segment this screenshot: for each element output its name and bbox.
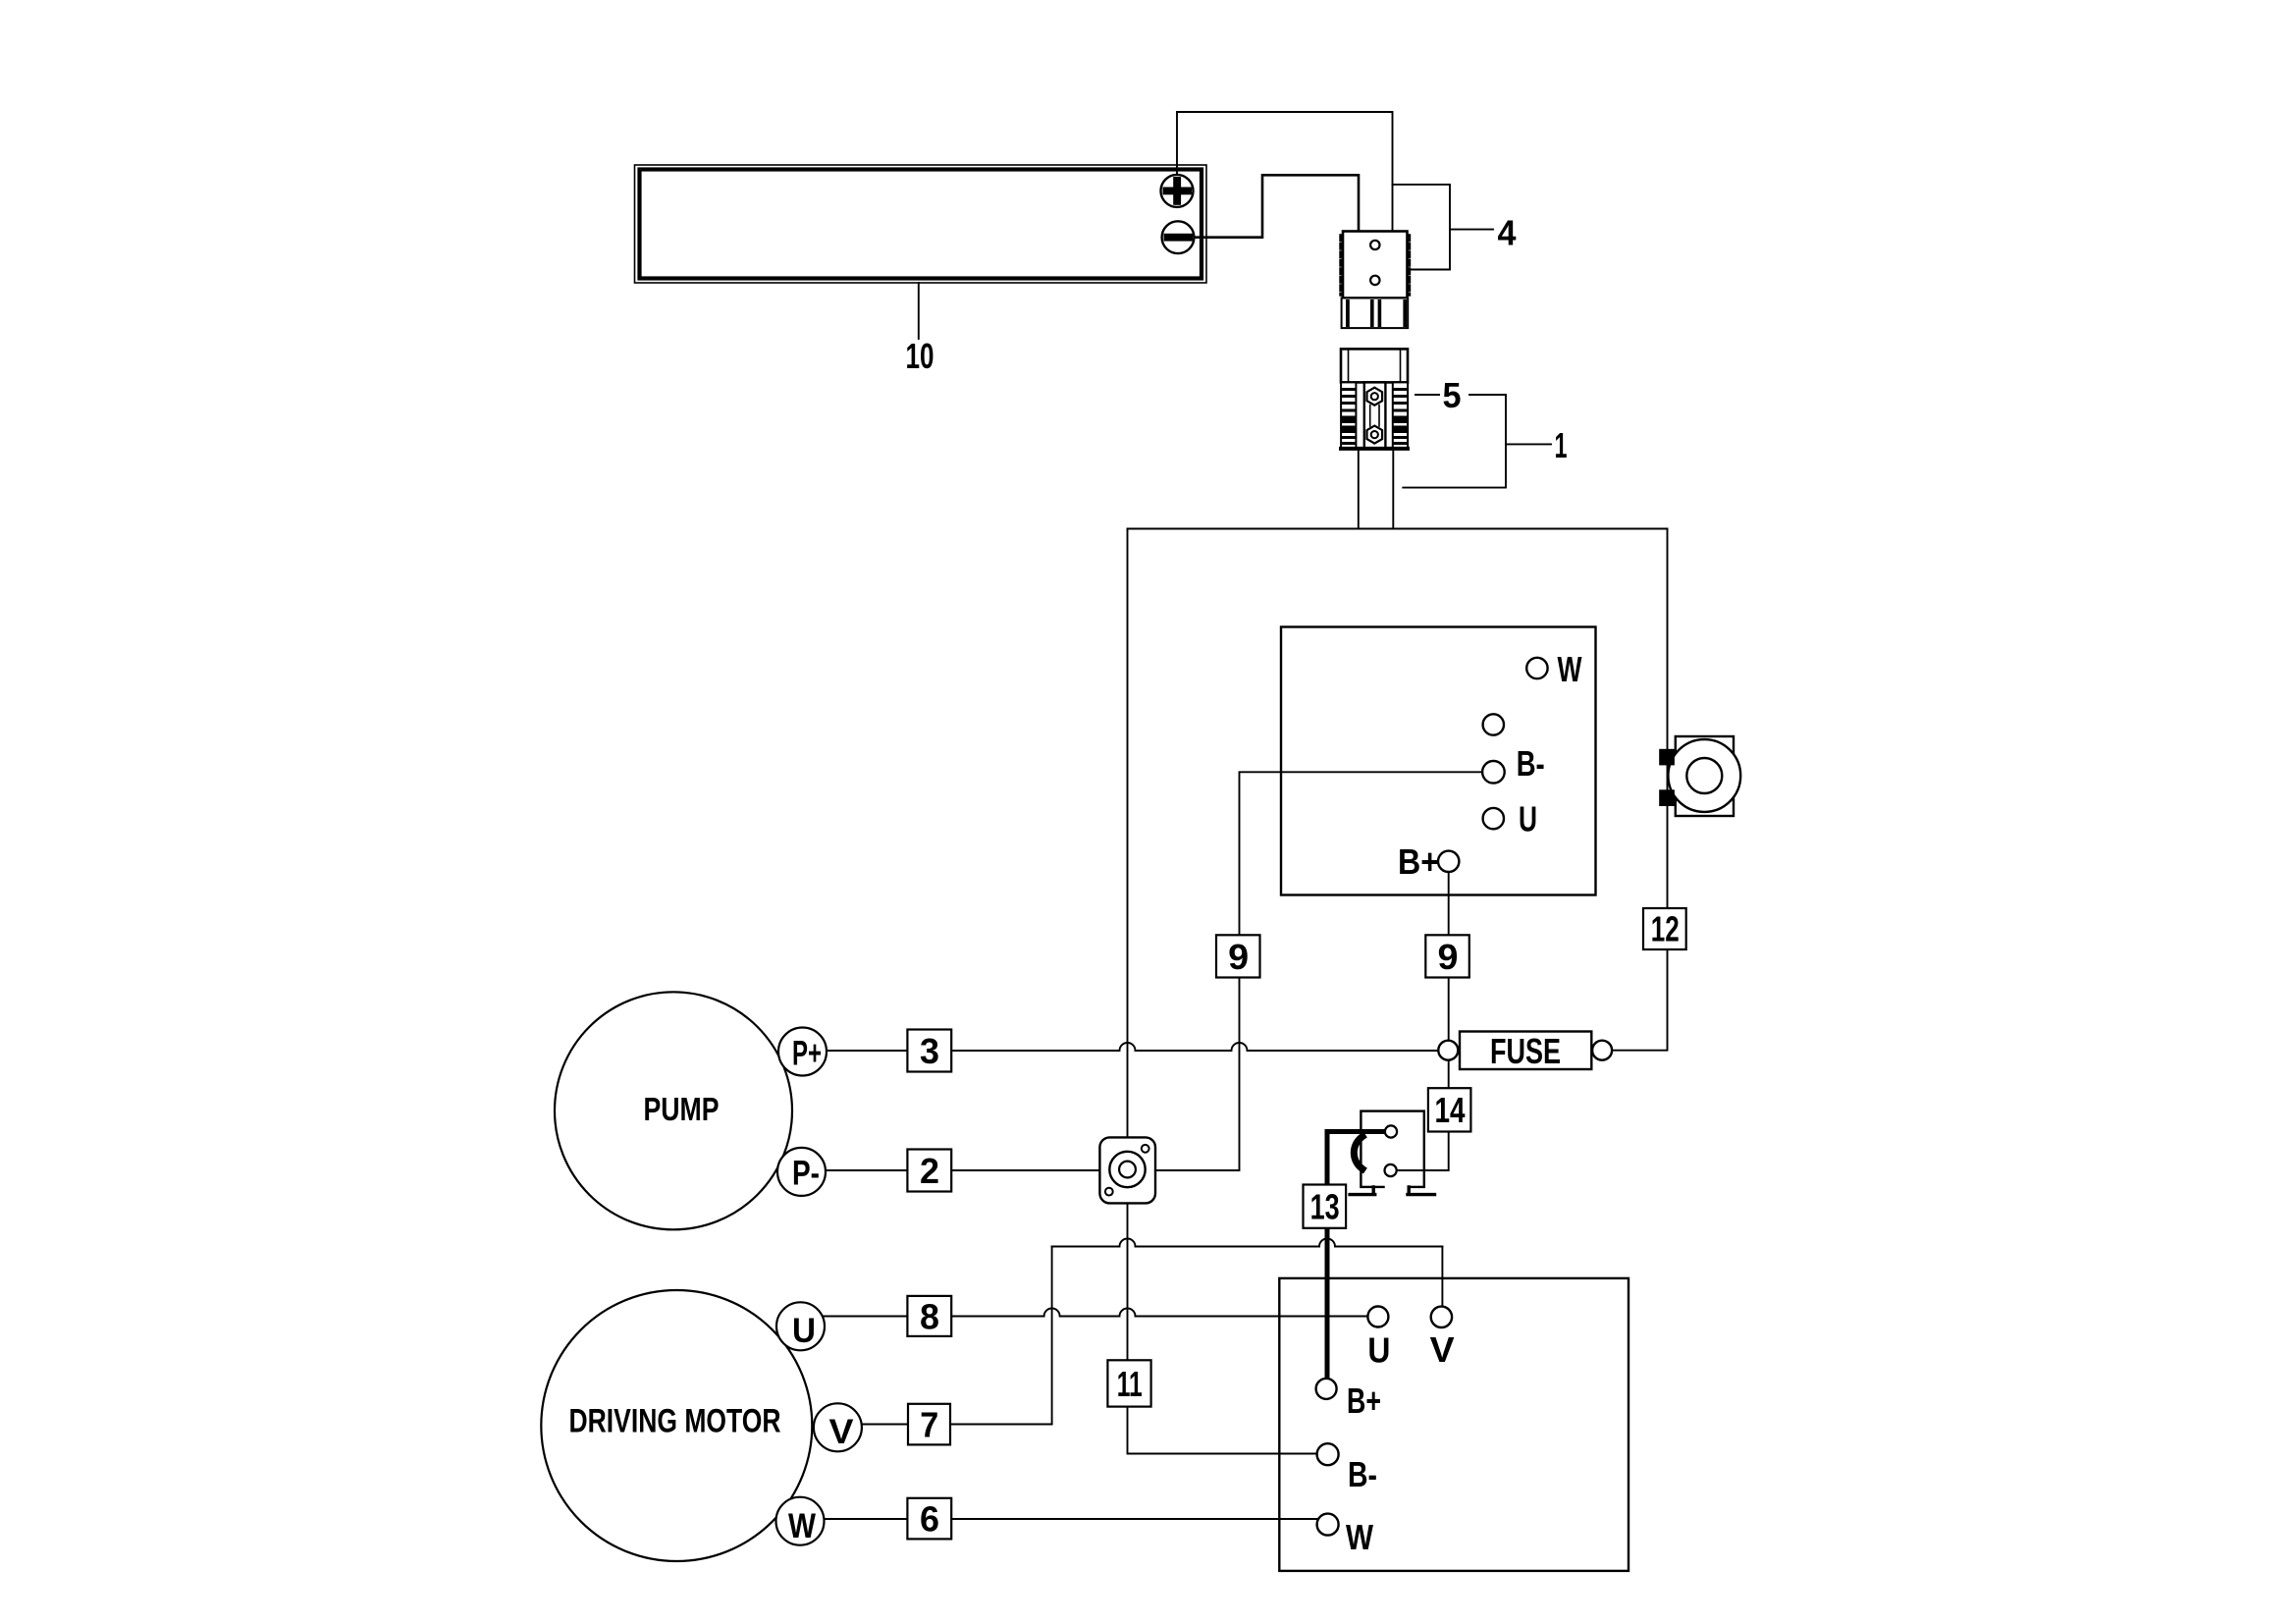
wire V riser from box 7 bbox=[1051, 1247, 1053, 1425]
svg-text:P+: P+ bbox=[792, 1035, 822, 1073]
svg-text:8: 8 bbox=[920, 1297, 939, 1337]
connector 4 contact housing bbox=[1342, 298, 1409, 329]
connector 4 body bbox=[1341, 232, 1410, 298]
box label 11 bbox=[1107, 1360, 1150, 1406]
wire 6 motor W to controller W bbox=[825, 1518, 1317, 1520]
pump motor bbox=[555, 992, 792, 1229]
terminal U upper bbox=[1483, 799, 1537, 839]
fuse body bbox=[1460, 1031, 1591, 1071]
terminal B+ upper bbox=[1398, 841, 1459, 882]
box label 12 bbox=[1643, 908, 1686, 949]
terminal U lower bbox=[1367, 1307, 1390, 1371]
box label 8 bbox=[907, 1296, 951, 1337]
wire battery minus to connector top bbox=[1193, 175, 1360, 237]
fuse right terminal bbox=[1592, 1041, 1612, 1060]
svg-text:U: U bbox=[1519, 799, 1537, 839]
connector 5 top shell bbox=[1341, 349, 1408, 382]
wire 8 motor U to controller U with hops bbox=[823, 1309, 1368, 1317]
terminal W motor bbox=[776, 1497, 825, 1545]
terminal U motor bbox=[776, 1302, 825, 1350]
svg-text:DRIVING MOTOR: DRIVING MOTOR bbox=[569, 1403, 781, 1440]
svg-text:PUMP: PUMP bbox=[644, 1091, 720, 1127]
wire horizontal bus bbox=[1128, 528, 1668, 530]
wire 3 pump P+ to fuse with hops bbox=[827, 1043, 1438, 1051]
terminal B- lower bbox=[1317, 1443, 1377, 1494]
terminal P- bbox=[777, 1148, 826, 1196]
wire battery plus to connector top bbox=[1177, 112, 1393, 232]
label 10 text bbox=[906, 336, 934, 376]
svg-text:3: 3 bbox=[920, 1031, 939, 1071]
wire connector5 right pin down to bus bbox=[1392, 449, 1394, 529]
svg-text:4: 4 bbox=[1498, 213, 1517, 253]
driving motor bbox=[541, 1290, 812, 1561]
svg-text:9: 9 bbox=[1438, 937, 1459, 977]
svg-text:5: 5 bbox=[1443, 375, 1462, 415]
svg-text:W: W bbox=[1346, 1517, 1373, 1557]
terminal V lower bbox=[1430, 1307, 1455, 1370]
label 4 text bbox=[1498, 213, 1517, 253]
box label 3 bbox=[907, 1030, 951, 1072]
box label 7 bbox=[908, 1404, 950, 1445]
wire V riser to terminal V bbox=[1441, 1247, 1443, 1307]
label 1 text bbox=[1555, 425, 1568, 465]
svg-text:B+: B+ bbox=[1347, 1380, 1381, 1421]
svg-text:U: U bbox=[1367, 1330, 1390, 1371]
wire 2 pump P- to flange bbox=[826, 1169, 1099, 1171]
leader item 5 bbox=[1415, 394, 1439, 396]
svg-text:12: 12 bbox=[1651, 909, 1680, 949]
key switch item 12 bbox=[1659, 736, 1740, 816]
connector 5 body right ribs bbox=[1393, 382, 1408, 449]
terminal P+ bbox=[778, 1028, 827, 1076]
battery positive terminal bbox=[1161, 175, 1194, 207]
terminal B+ lower bbox=[1316, 1379, 1381, 1421]
svg-text:6: 6 bbox=[920, 1499, 939, 1540]
wire right vertical to key switch and fuse bbox=[1612, 529, 1668, 1051]
label 5 text bbox=[1443, 375, 1462, 415]
svg-text:B-: B- bbox=[1348, 1454, 1377, 1494]
label 10 leader bbox=[918, 283, 920, 339]
svg-text:11: 11 bbox=[1117, 1364, 1143, 1404]
svg-text:14: 14 bbox=[1435, 1090, 1466, 1130]
flange connector bbox=[1099, 1137, 1155, 1203]
wire fuse to contactor terminal item 14 bbox=[1397, 1060, 1449, 1170]
box label 9 left bbox=[1216, 935, 1260, 977]
svg-text:10: 10 bbox=[906, 336, 934, 376]
terminal W upper bbox=[1526, 649, 1581, 689]
fuse left terminal bbox=[1438, 1041, 1458, 1060]
svg-text:B-: B- bbox=[1517, 743, 1545, 784]
terminal B- upper bbox=[1482, 743, 1545, 784]
controller box upper bbox=[1281, 627, 1596, 895]
wire controller B- to flange bbox=[1155, 772, 1482, 1170]
wire cross link to lower controller V with hops bbox=[1052, 1239, 1443, 1247]
svg-text:B+: B+ bbox=[1398, 841, 1439, 882]
wire left vertical battery negative rail bbox=[1127, 529, 1129, 1138]
battery 10 bbox=[635, 165, 1207, 283]
box label 2 bbox=[907, 1150, 951, 1192]
svg-text:U: U bbox=[792, 1312, 816, 1350]
svg-text:1: 1 bbox=[1555, 425, 1568, 465]
wire flange bottom to lower controller B- bbox=[1128, 1203, 1317, 1453]
contactor body bbox=[1354, 1111, 1423, 1187]
wire connector5 left pin down to bus bbox=[1358, 449, 1360, 529]
svg-text:FUSE: FUSE bbox=[1490, 1031, 1561, 1071]
contactor mounting feet bbox=[1350, 1187, 1434, 1195]
svg-text:V: V bbox=[1430, 1329, 1455, 1370]
svg-text:2: 2 bbox=[920, 1151, 939, 1191]
box label 13 bbox=[1304, 1185, 1347, 1228]
svg-text:9: 9 bbox=[1228, 937, 1249, 977]
svg-text:13: 13 bbox=[1310, 1187, 1340, 1227]
terminal W lower bbox=[1317, 1514, 1373, 1557]
svg-text:7: 7 bbox=[920, 1405, 938, 1445]
wire 7 motor V bbox=[862, 1424, 1052, 1426]
leader bracket item 4 bbox=[1393, 185, 1494, 270]
terminal V motor bbox=[814, 1403, 862, 1451]
svg-text:W: W bbox=[1558, 649, 1582, 689]
leader bracket item 1 bbox=[1403, 395, 1551, 488]
svg-text:V: V bbox=[829, 1413, 855, 1451]
box label 6 bbox=[907, 1498, 951, 1540]
wire controller B+ down to fuse bbox=[1448, 872, 1450, 1041]
connector 5 center channel with bolts bbox=[1341, 382, 1408, 449]
connector 5 body left ribs bbox=[1341, 382, 1356, 449]
battery negative terminal bbox=[1162, 221, 1195, 253]
box label 14 bbox=[1428, 1088, 1471, 1131]
svg-text:P-: P- bbox=[792, 1155, 820, 1193]
box label 9 right bbox=[1425, 935, 1469, 977]
wire thick contactor to 13 to controller B+ bbox=[1327, 1132, 1385, 1379]
controller box lower bbox=[1279, 1278, 1629, 1571]
terminal unlabeled upper bbox=[1483, 714, 1504, 734]
svg-text:W: W bbox=[788, 1507, 816, 1545]
